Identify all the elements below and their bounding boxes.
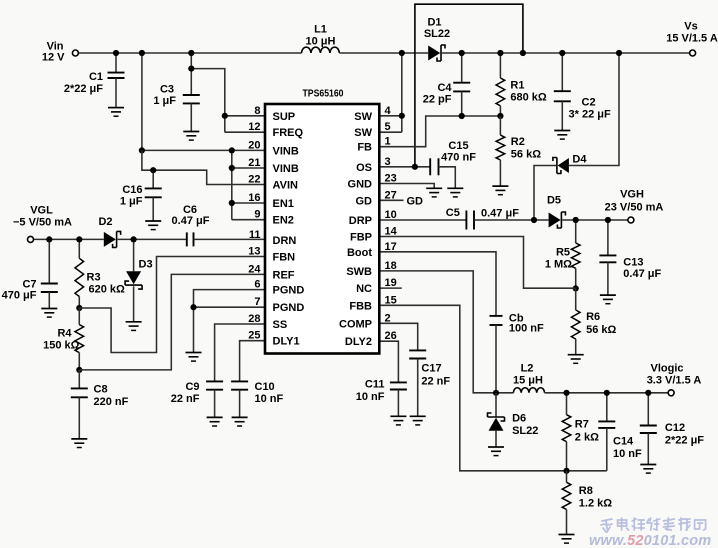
wire SW pins to rail — [401, 53, 403, 132]
svg-text:GND: GND — [348, 179, 373, 191]
ground C11 — [390, 415, 406, 417]
capacitor C2 — [561, 53, 563, 91]
terminal Vin — [72, 50, 78, 56]
capacitor C16 — [152, 170, 154, 188]
junction R1-R2 node — [497, 113, 503, 119]
svg-text:PGND: PGND — [273, 302, 305, 314]
svg-text:AVIN: AVIN — [273, 180, 299, 192]
svg-text:11: 11 — [249, 229, 261, 241]
svg-text:220 nF: 220 nF — [94, 396, 129, 408]
ground C2 — [554, 130, 570, 132]
svg-text:16: 16 — [248, 192, 260, 204]
wire pin 2 COMP to C17 — [379, 323, 417, 350]
svg-text:17: 17 — [385, 241, 397, 253]
svg-text:470 nF: 470 nF — [441, 152, 476, 164]
junction pin 21 — [229, 165, 235, 171]
wire pin 14 FBP to R5-R6 node — [379, 237, 575, 289]
wire D1 to Vs terminal — [442, 52, 690, 54]
wire VGL rail — [33, 238, 103, 240]
svg-text:7: 7 — [254, 296, 260, 308]
svg-text:Boot: Boot — [347, 247, 372, 259]
svg-text:D5: D5 — [547, 195, 561, 207]
diode D4 — [558, 158, 569, 173]
svg-text:10 μH: 10 μH — [306, 36, 336, 48]
junction D4-C5-D5 node — [531, 217, 537, 223]
svg-text:3* 22 μF: 3* 22 μF — [569, 109, 611, 121]
ground C3 — [183, 131, 199, 133]
svg-text:23 V/50 mA: 23 V/50 mA — [605, 202, 664, 214]
wire Vin rail — [78, 52, 301, 54]
svg-text:15 V/1.5 A: 15 V/1.5 A — [666, 33, 718, 45]
svg-text:L1: L1 — [314, 24, 327, 36]
svg-text:10 nF: 10 nF — [255, 393, 284, 405]
wire REF loop to pin 24 — [79, 274, 265, 370]
svg-text:19: 19 — [385, 277, 397, 289]
junction C4 bottom — [459, 113, 465, 119]
svg-text:C3: C3 — [160, 84, 174, 96]
junction pin 16 — [229, 200, 235, 206]
ground D6 — [488, 446, 504, 448]
ground C17 — [410, 415, 426, 417]
svg-text:D4: D4 — [572, 154, 587, 166]
wire L2 to Vlogic terminal — [545, 392, 669, 394]
capacitor C12 — [647, 393, 649, 425]
wire pin 15 FBB to R7-R8 node — [379, 305, 607, 471]
svg-text:6: 6 — [254, 279, 260, 291]
svg-text:SW: SW — [354, 127, 372, 139]
svg-text:3: 3 — [385, 156, 391, 168]
ground C9 — [207, 416, 223, 418]
wire pin 17 Boot to Cb — [379, 252, 496, 316]
capacitor C7 — [48, 239, 50, 283]
svg-text:1.2 kΩ: 1.2 kΩ — [579, 498, 612, 510]
svg-text:25: 25 — [248, 330, 260, 342]
wire pin 9 EN2 stub — [232, 219, 265, 221]
svg-text:DLY2: DLY2 — [345, 336, 372, 348]
svg-text:27: 27 — [385, 189, 397, 201]
diode D5 — [549, 213, 561, 228]
svg-text:10: 10 — [385, 209, 397, 221]
capacitor C11 — [390, 381, 407, 383]
svg-text:C9: C9 — [185, 381, 199, 393]
svg-text:R7: R7 — [575, 419, 589, 431]
svg-text:DRN: DRN — [273, 235, 297, 247]
wire pin 25 DLY1 to C10 — [240, 341, 265, 381]
svg-text:D2: D2 — [98, 216, 112, 228]
svg-text:12: 12 — [248, 121, 260, 133]
ground C12 — [640, 464, 656, 466]
svg-text:NC: NC — [356, 283, 372, 295]
wire FB feedback — [379, 116, 500, 147]
svg-text:2*22 μF: 2*22 μF — [665, 435, 704, 447]
svg-text:FB: FB — [357, 142, 372, 154]
capacitor C6 — [186, 232, 188, 246]
resistor R2 56k — [499, 116, 501, 135]
svg-text:0.47 μF: 0.47 μF — [481, 208, 519, 220]
svg-text:OS: OS — [356, 162, 372, 174]
wire pin 6 PGND to ground — [194, 290, 266, 353]
svg-text:VGH: VGH — [620, 189, 644, 201]
junction C3 branch — [188, 66, 194, 72]
svg-text:2: 2 — [385, 312, 391, 324]
wire VINB-EN vertical — [231, 150, 233, 219]
svg-text:REF: REF — [273, 269, 295, 281]
svg-text:C14: C14 — [613, 436, 634, 448]
ground R6 — [568, 354, 584, 356]
op-amp U1 TPS65160 IC body — [265, 104, 379, 354]
diode D6 SL22 — [495, 393, 497, 417]
svg-text:SL22: SL22 — [424, 28, 450, 40]
wire pin 5 SW stub — [379, 131, 402, 133]
terminal Vs — [690, 50, 696, 56]
junction C16 — [150, 167, 156, 173]
junction pin 4 — [399, 113, 405, 119]
ground C8 — [71, 438, 87, 440]
svg-text:SS: SS — [273, 319, 288, 331]
ground R2 — [492, 185, 508, 187]
svg-text:SWB: SWB — [346, 266, 372, 278]
svg-text:−5 V/50 mA: −5 V/50 mA — [13, 217, 72, 229]
svg-text:VGL: VGL — [30, 205, 53, 217]
svg-text:VINB: VINB — [273, 163, 299, 175]
svg-text:SUP: SUP — [273, 111, 296, 123]
svg-text:FREQ: FREQ — [273, 127, 304, 139]
svg-text:150 kΩ: 150 kΩ — [43, 340, 80, 352]
svg-text:8: 8 — [254, 105, 260, 117]
svg-text:0.47 μF: 0.47 μF — [623, 268, 661, 280]
svg-text:4: 4 — [385, 105, 392, 117]
svg-text:C11: C11 — [365, 379, 385, 391]
svg-text:C5: C5 — [446, 207, 460, 219]
wire pin 21 VINB stub — [232, 167, 265, 169]
svg-text:SW: SW — [354, 111, 372, 123]
capacitor C5 — [465, 211, 467, 230]
svg-text:R1: R1 — [510, 80, 524, 92]
resistor R6 56k — [575, 288, 577, 310]
svg-text:18: 18 — [385, 260, 397, 272]
svg-text:C13: C13 — [623, 257, 643, 269]
junction D6-Cb node on Vlogic line — [493, 390, 499, 396]
wire pin 19 NC stub — [379, 287, 402, 289]
svg-text:1 μF: 1 μF — [153, 95, 176, 107]
svg-text:C16: C16 — [122, 184, 142, 196]
junction C12 top — [645, 390, 651, 396]
junction D3 — [131, 236, 137, 242]
svg-text:1 μF: 1 μF — [120, 196, 143, 208]
svg-text:GD: GD — [356, 195, 373, 207]
junction SW rail — [399, 50, 405, 56]
svg-text:PGND: PGND — [273, 285, 305, 297]
svg-text:TPS65160: TPS65160 — [303, 88, 344, 100]
resistor R8 1.2k — [566, 471, 568, 483]
wire C6 to pin 11 DRN — [194, 238, 266, 240]
svg-text:15 μH: 15 μH — [513, 375, 543, 387]
svg-text:20: 20 — [248, 139, 260, 151]
ground C1 — [108, 107, 124, 109]
svg-text:56 kΩ: 56 kΩ — [586, 324, 616, 336]
svg-text:DLY1: DLY1 — [273, 336, 300, 348]
svg-text:Vs: Vs — [684, 21, 697, 33]
svg-text:28: 28 — [248, 313, 260, 325]
capacitor C13 — [607, 220, 609, 255]
svg-text:1: 1 — [385, 136, 391, 148]
resistor R3 620k — [78, 239, 80, 258]
capacitor C9 — [206, 380, 223, 382]
wire pin 28 SS to C9 — [215, 324, 265, 381]
wire VINB drop from rail — [141, 53, 143, 150]
wire D4 cathode drop — [534, 166, 556, 221]
svg-text:R4: R4 — [57, 328, 72, 340]
svg-text:620 kΩ: 620 kΩ — [89, 284, 126, 296]
svg-text:21: 21 — [248, 157, 260, 169]
capacitor Cb — [490, 315, 503, 317]
capacitor C17 — [409, 349, 426, 351]
junction C4 rail — [459, 50, 465, 56]
inductor L2 — [513, 388, 544, 393]
junction R5-R6 node — [573, 285, 579, 291]
svg-text:R2: R2 — [511, 136, 525, 148]
ground PGND — [186, 352, 202, 354]
wire C5 to D5 — [474, 219, 549, 221]
svg-text:10 nF: 10 nF — [356, 391, 385, 403]
wire SUP/FREQ branch — [191, 69, 225, 133]
wire pin 18 SWB to L2 node — [379, 271, 513, 393]
svg-text:13: 13 — [248, 246, 260, 258]
capacitor C10 — [231, 380, 248, 382]
svg-text:10 nF: 10 nF — [613, 448, 642, 460]
junction PGND — [190, 304, 196, 310]
svg-text:FBP: FBP — [350, 232, 372, 244]
capacitor C8 — [78, 370, 80, 388]
wire OS sense loop over top — [415, 4, 523, 167]
svg-text:R3: R3 — [87, 272, 101, 284]
ground C15 — [447, 187, 463, 189]
wire D5 to VGH terminal — [562, 219, 628, 221]
ground C16 — [145, 220, 161, 222]
svg-text:22 nF: 22 nF — [171, 393, 200, 405]
ground C13 — [600, 294, 616, 296]
svg-text:DRP: DRP — [349, 215, 372, 227]
svg-text:14: 14 — [385, 226, 398, 238]
svg-text:2 kΩ: 2 kΩ — [575, 432, 599, 444]
diode D3 — [133, 239, 135, 271]
diode D1 SL22 — [428, 46, 440, 61]
wire pin 7 PGND stub — [194, 306, 266, 308]
svg-text:22 pF: 22 pF — [423, 94, 452, 106]
svg-text:100 nF: 100 nF — [509, 323, 544, 335]
junction R3 top — [76, 236, 82, 242]
svg-text:GD: GD — [407, 196, 424, 208]
svg-text:26: 26 — [385, 330, 397, 342]
capacitor C14 — [606, 393, 608, 421]
svg-text:680 kΩ: 680 kΩ — [510, 92, 547, 104]
svg-text:C1: C1 — [89, 71, 103, 83]
diode D4 branch from rail — [569, 53, 619, 166]
svg-text:EN2: EN2 — [273, 215, 294, 227]
junction C13 top — [605, 217, 611, 223]
svg-text:R8: R8 — [579, 485, 593, 497]
svg-text:C17: C17 — [421, 363, 441, 375]
svg-text:EN1: EN1 — [273, 198, 294, 210]
terminal Vlogic — [668, 390, 674, 396]
svg-text:D6: D6 — [512, 413, 526, 425]
wire pin 20 VINB — [142, 149, 265, 151]
junction R1 rail — [497, 50, 503, 56]
svg-text:COMP: COMP — [339, 318, 372, 330]
watermark chinese text — [601, 519, 612, 532]
svg-text:470 μF: 470 μF — [2, 290, 37, 302]
wire D2 to C6 — [118, 238, 187, 240]
resistor R7 2k — [566, 393, 568, 415]
junction OS node — [412, 164, 418, 170]
capacitor C4 — [461, 53, 463, 82]
junction C7 — [46, 236, 52, 242]
junction R5 top — [573, 217, 579, 223]
svg-text:C8: C8 — [94, 384, 108, 396]
svg-text:1 MΩ: 1 MΩ — [545, 259, 572, 271]
svg-text:SL22: SL22 — [512, 425, 538, 437]
ground C7 — [41, 308, 57, 310]
svg-text:D3: D3 — [139, 259, 153, 271]
wire pin 16 EN1 stub — [232, 202, 265, 204]
wire pin 8 SUP stub — [225, 115, 265, 117]
resistor R5 1M — [575, 220, 577, 243]
capacitor C15 — [429, 158, 431, 175]
svg-text:Vlogic: Vlogic — [650, 363, 683, 375]
wire pin 23 GND to ground — [379, 184, 434, 189]
svg-text:56 kΩ: 56 kΩ — [511, 149, 541, 161]
capacitor C1 — [115, 53, 117, 72]
junction C14 top — [604, 390, 610, 396]
junction R7 top — [563, 390, 569, 396]
terminal VGL — [28, 236, 34, 242]
junction C2 rail — [559, 50, 565, 56]
svg-text:0.47 μF: 0.47 μF — [172, 215, 210, 227]
junction VINB rail — [139, 50, 145, 56]
svg-text:15: 15 — [385, 294, 397, 306]
svg-text:R6: R6 — [586, 311, 600, 323]
wire pin 26 DLY2 to C11 — [379, 341, 398, 382]
svg-text:VINB: VINB — [273, 145, 299, 157]
svg-text:L2: L2 — [521, 363, 534, 375]
svg-text:FBN: FBN — [273, 252, 296, 264]
junction C1 rail — [113, 50, 119, 56]
inductor L1 — [302, 47, 340, 53]
svg-text:3.3 V/1.5 A: 3.3 V/1.5 A — [647, 375, 702, 387]
wire pin 12 FREQ stub — [225, 131, 265, 133]
svg-text:www.520101.com: www.520101.com — [589, 533, 711, 548]
wire pin 10 DRP to C5 — [379, 219, 466, 221]
ground D3 — [126, 321, 142, 323]
junction VINB corner — [139, 147, 145, 153]
resistor R1 680k — [499, 53, 501, 78]
svg-text:24: 24 — [248, 263, 261, 275]
svg-text:12 V: 12 V — [42, 52, 65, 64]
junction R3-R4 node — [76, 305, 82, 311]
svg-text:9: 9 — [254, 209, 260, 221]
svg-text:2*22 μF: 2*22 μF — [64, 83, 103, 95]
svg-text:D1: D1 — [427, 17, 441, 29]
svg-text:C10: C10 — [255, 381, 275, 393]
svg-text:FBB: FBB — [349, 300, 372, 312]
ground C10 — [232, 416, 248, 418]
junction pin 20 branch — [229, 147, 235, 153]
svg-text:C4: C4 — [437, 82, 452, 94]
wire pin 27 GD stub — [379, 199, 403, 201]
ground pin 23 — [426, 187, 442, 189]
junction C3 rail — [188, 50, 194, 56]
svg-text:C12: C12 — [665, 422, 685, 434]
wire pin 3 OS stub — [379, 166, 430, 168]
junction R4 bottom — [76, 367, 82, 373]
diode D2 — [104, 232, 116, 247]
wire L1 to D1 — [339, 52, 428, 54]
terminal VGH — [628, 217, 634, 223]
wire FBN loop to pin 13 — [79, 257, 265, 353]
junction R7-R8 node — [563, 468, 569, 474]
svg-text:R5: R5 — [556, 247, 570, 259]
junction OS loop on rail — [520, 50, 526, 56]
svg-text:C2: C2 — [582, 97, 596, 109]
svg-text:23: 23 — [385, 173, 397, 185]
capacitor C3 — [190, 53, 192, 95]
svg-text:5: 5 — [385, 121, 391, 133]
svg-text:22 nF: 22 nF — [421, 376, 450, 388]
svg-text:C15: C15 — [448, 140, 468, 152]
svg-text:22: 22 — [248, 174, 260, 186]
junction D4 rail — [616, 50, 622, 56]
junction pin 8 — [222, 113, 228, 119]
resistor R4 150k — [78, 308, 80, 325]
ground R8 — [559, 534, 575, 536]
wire pin 4 SW stub — [379, 115, 402, 117]
wire AVIN path — [142, 150, 265, 184]
